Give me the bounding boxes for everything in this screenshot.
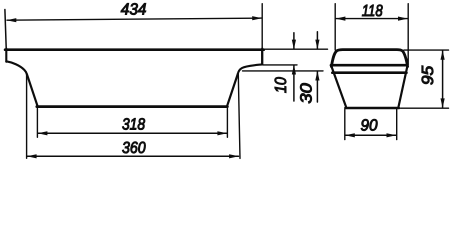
dim 434: right extension line xyxy=(261,4,263,48)
extension line B (lower step level) xyxy=(263,64,297,66)
svg-text:10: 10 xyxy=(272,77,290,93)
right view: bottom edge xyxy=(345,107,398,110)
dim 434: left extension line xyxy=(5,10,6,49)
dim 118: right extension line xyxy=(407,4,409,65)
dim 360: left arrowhead xyxy=(27,154,37,158)
dim 318: right arrowhead xyxy=(217,131,227,135)
dim 434: dimension line xyxy=(7,18,262,20)
dim 90: dimension line xyxy=(345,134,396,136)
left view: right slant wall xyxy=(227,74,238,106)
dim 434: right arrowhead xyxy=(252,16,262,20)
extension line C (slant top level) xyxy=(243,70,324,72)
dim 90: right extension line xyxy=(396,110,398,140)
dim 90: left arrowhead xyxy=(345,133,355,137)
dim 434: left arrowhead xyxy=(7,18,17,22)
left view: left step curve xyxy=(6,61,27,74)
svg-text:30: 30 xyxy=(298,83,316,103)
dim 90: left extension line xyxy=(344,110,346,140)
dim 118: left extension line xyxy=(334,4,336,50)
svg-text:434: 434 xyxy=(121,1,147,19)
dim 360: right extension line xyxy=(238,75,240,159)
svg-text:95: 95 xyxy=(419,65,437,85)
dim 318: left extension line xyxy=(36,108,38,137)
svg-text:318: 318 xyxy=(122,116,145,134)
left view: top edge of plate xyxy=(5,48,264,51)
dim 95: dimension line xyxy=(442,50,444,107)
dim 360: left extension line xyxy=(26,74,28,158)
dim 90: right arrowhead xyxy=(387,133,397,137)
right view: left lower wall xyxy=(332,67,347,107)
right view: upper shoulder line xyxy=(331,64,407,67)
left view: left end vertical edge xyxy=(5,49,7,62)
dim 95: down arrowhead xyxy=(441,98,445,108)
dim 95: up arrowhead xyxy=(441,50,445,60)
dim 118: dimension line xyxy=(336,18,408,20)
dim 10: dimension line below (with tail) xyxy=(293,65,295,101)
dim 360: dimension line xyxy=(27,155,238,157)
dim 10: down arrowhead xyxy=(292,40,296,50)
dim 118: right arrowhead xyxy=(398,17,408,21)
dim 95: top extension line xyxy=(404,49,449,51)
dim 360: right arrowhead xyxy=(229,154,239,158)
dim 118: left arrowhead xyxy=(336,17,346,21)
left view: right end vertical edge xyxy=(261,49,263,65)
dim 95: bottom extension line xyxy=(401,107,449,109)
dim 30: up arrowhead xyxy=(315,71,319,81)
svg-text:90: 90 xyxy=(360,117,377,135)
right view: top edge with rounded corners and side flares xyxy=(331,50,407,67)
left view: right step curve xyxy=(238,64,262,74)
svg-text:118: 118 xyxy=(362,2,383,20)
right view: lower shoulder line xyxy=(332,71,406,74)
right view: right lower wall xyxy=(399,67,408,107)
dim 318: left arrowhead xyxy=(38,131,48,135)
dim 318: right extension line xyxy=(226,108,228,137)
dim 30: down arrowhead xyxy=(315,40,319,50)
dim 10: up arrowhead xyxy=(292,65,296,75)
dim 10: dimension line above (with tail) xyxy=(293,33,295,49)
extension line A (top surface level) xyxy=(264,48,328,50)
dim 30: dimension line below (with tail) xyxy=(316,71,318,102)
dim 318: dimension line xyxy=(38,132,227,134)
left view: left slant wall xyxy=(27,74,38,106)
svg-text:360: 360 xyxy=(122,139,146,157)
dim 30: dimension line above (with tail) xyxy=(316,32,318,49)
left view: bottom edge xyxy=(37,105,228,108)
